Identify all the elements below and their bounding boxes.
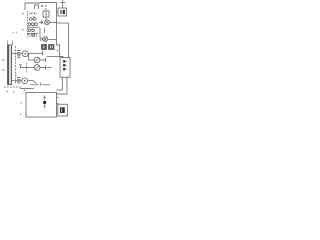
label r — [20, 114, 21, 115]
label near box a — [24, 90, 25, 91]
bottom row dash — [29, 35, 32, 37]
wire cluster to capacitor — [39, 28, 41, 37]
jack wire to right bus — [47, 56, 60, 58]
wire G1 right — [28, 52, 40, 54]
base label dots — [6, 91, 7, 92]
electrode body — [43, 101, 46, 104]
small box 22 — [42, 45, 47, 50]
relay contact circle b — [34, 18, 37, 21]
terminal tick rail2 — [45, 58, 47, 62]
dashed drop conductor — [25, 63, 27, 73]
electrode lower dashes — [43, 105, 46, 107]
wire down second — [44, 28, 46, 33]
lead label 7 — [7, 41, 9, 46]
enclosure box top edge — [25, 1, 57, 4]
base label dot2 — [13, 91, 14, 92]
contact bars left of L1 — [41, 21, 42, 24]
label pair above left — [13, 32, 16, 33]
contact row1 ticks — [32, 13, 34, 14]
small box 23 — [49, 45, 55, 50]
bus ticks down — [29, 33, 35, 35]
enclosure box left edge (partial) — [24, 3, 26, 10]
staple component in top edge — [35, 5, 39, 9]
contact circle d — [32, 23, 35, 26]
T junction tick — [19, 65, 22, 68]
wire box1 to lamp — [45, 17, 47, 20]
wire L2 to right bus — [48, 38, 57, 40]
output inner notch — [61, 108, 63, 112]
wire unit18 to enclosure — [57, 11, 59, 13]
output box inner block — [60, 107, 65, 113]
terminal tick rail1 — [42, 51, 44, 56]
wire battery to G1 — [12, 53, 23, 55]
lower bus bar — [28, 32, 39, 34]
dashed boundary inside enclosure — [27, 11, 29, 38]
component box 1 — [43, 11, 49, 17]
terminal tick right lower — [57, 103, 59, 105]
generator G1 circle — [22, 51, 28, 57]
lamp circle L1 — [45, 20, 50, 25]
wire L1 right — [49, 21, 56, 23]
meter M1 circle — [34, 57, 40, 63]
meter M2 circle — [34, 65, 40, 71]
label w — [21, 102, 22, 103]
brush bars of generator G2 — [17, 78, 20, 83]
switch blade — [34, 81, 37, 84]
brush bars of generator G1 — [17, 51, 20, 58]
wire battery to G2 — [12, 80, 22, 82]
notch in box 22 — [43, 46, 45, 49]
node dot near bus — [57, 50, 58, 51]
notch in box 23 — [50, 46, 52, 49]
capacitor plates — [40, 37, 42, 41]
battery stack outline — [8, 45, 12, 85]
wire capacitor to lamp2 — [41, 38, 44, 40]
wire to meter M2 — [20, 67, 34, 69]
lead label 9 — [12, 41, 14, 46]
label 41 — [42, 5, 43, 7]
label inside box 1 — [45, 12, 47, 16]
rail3 tail right — [47, 67, 52, 69]
battery base labels — [5, 86, 20, 88]
interconnect L wire outer — [57, 77, 68, 94]
switch tick — [39, 83, 41, 86]
right bus down — [68, 23, 70, 58]
enclosure right edge / main right bus — [57, 2, 64, 58]
antenna top bar — [60, 1, 65, 3]
battery left dark edge — [7, 45, 9, 85]
generator G2 dot — [24, 80, 26, 82]
interconnect L wire inner — [57, 77, 63, 90]
side tick upper — [2, 60, 4, 70]
contact circle e — [35, 23, 38, 26]
lower rail 2 — [20, 88, 34, 90]
junction riser — [28, 53, 30, 60]
wire from top edge to box 1 — [45, 8, 47, 11]
electrode lead — [44, 96, 46, 110]
terminal tick rail3 — [45, 65, 47, 69]
wire L1 left — [39, 21, 41, 23]
converter cell 3 — [63, 68, 65, 70]
antenna mast — [62, 2, 64, 8]
contact pair row 1 — [29, 13, 37, 15]
rail1 tail — [41, 52, 43, 54]
meter M2 needle — [35, 66, 39, 70]
branch wire right — [57, 22, 69, 24]
lamp L2 cross — [44, 37, 47, 41]
cluster mark — [33, 16, 35, 18]
bus bar under contacts — [28, 26, 40, 28]
side conductor dashed — [15, 46, 17, 85]
relay contact circle a — [30, 18, 33, 21]
meter M1 needle — [35, 58, 39, 62]
converter cell ticks — [66, 61, 67, 69]
terminal tick right upper — [57, 97, 59, 99]
contact circle c — [28, 23, 31, 26]
converter cell 2 — [63, 64, 65, 66]
contact circle f — [28, 29, 31, 32]
wire to meter M1 — [29, 59, 35, 61]
lower rail wire — [30, 84, 50, 86]
lower unit box outline — [26, 93, 57, 118]
label b — [22, 13, 23, 14]
unit box 18 — [58, 8, 67, 16]
contact circle g — [32, 29, 35, 32]
wire G2 right — [28, 80, 34, 82]
bottom row mark — [36, 34, 38, 36]
generator G2 circle — [22, 78, 28, 84]
lamp circle L2 — [43, 37, 48, 42]
generator G1 dot — [25, 53, 27, 55]
link between contacts — [32, 18, 33, 20]
converter box outline — [60, 58, 70, 78]
lamp L1 cross — [45, 21, 48, 24]
antenna tip dot — [62, 0, 63, 1]
unit 18 inner bar B — [63, 10, 65, 14]
battery cell lines — [8, 47, 12, 83]
bottom row circle — [32, 34, 34, 36]
wire M1 right — [40, 59, 46, 61]
unit 18 inner bar A — [60, 10, 61, 14]
electrode top tick — [43, 96, 46, 98]
wire M2 right — [40, 67, 46, 69]
converter cell 1 — [63, 60, 65, 62]
label 1 tick — [45, 5, 47, 7]
label node dot 2 — [22, 29, 23, 30]
output box outline — [58, 104, 68, 116]
